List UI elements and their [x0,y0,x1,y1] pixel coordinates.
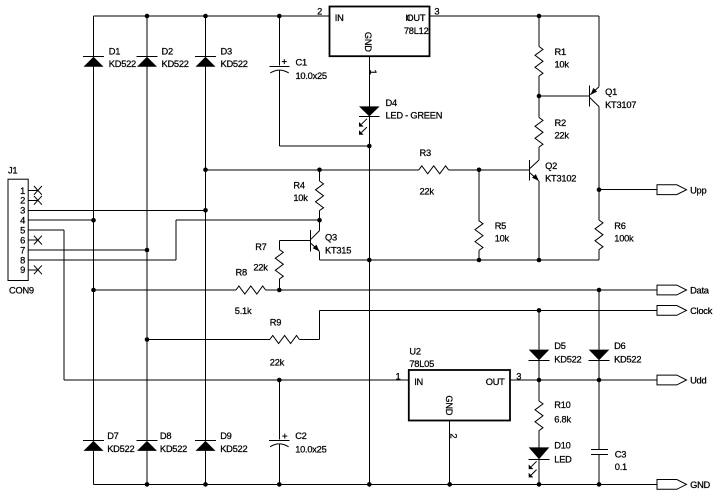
svg-text:1: 1 [395,371,400,381]
port GND [657,480,687,490]
wire C1 bottom lead [278,71,280,147]
capacitor C3 0.1 [591,380,608,484]
junction pin3/D3 rail [203,208,208,213]
wire D6 lower lead [598,360,600,380]
svg-text:C1: C1 [296,58,307,68]
svg-text:78L12: 78L12 [404,26,429,36]
junction D4 rail / emitter bus [367,258,372,263]
svg-text:KT3102: KT3102 [545,174,576,184]
junction Upp node [597,187,602,192]
wire top supply bus left [94,15,330,17]
wire Data line right [266,289,657,291]
svg-text:GND: GND [690,480,710,490]
svg-text:J1: J1 [8,166,17,176]
junction pin7/D2 rail [145,248,150,253]
svg-text:R9: R9 [270,318,281,328]
svg-text:C2: C2 [295,431,306,441]
diode D8 KD522 [137,441,158,451]
diode D5 KD522 [529,350,550,361]
svg-text:KD522: KD522 [107,444,134,454]
svg-text:GND: GND [363,32,373,52]
svg-text:Upp: Upp [690,185,706,195]
wire Data line left [94,289,237,291]
svg-text:LED - GREEN: LED - GREEN [386,110,443,120]
wire D2 rail upper [146,16,148,56]
wire D3 rail middle [205,67,207,441]
svg-text:22k: 22k [270,358,285,368]
junction D6/C3 on Udd [597,378,602,383]
J1 pin 9 no-connect X [34,265,42,274]
LED D10 [529,447,550,477]
svg-text:KD522: KD522 [554,355,581,365]
svg-text:LED: LED [554,454,572,464]
junction R5 top [477,168,482,173]
junction R4 top [317,168,322,173]
svg-text:2: 2 [20,196,25,206]
wire GND bus [94,483,658,485]
wire D1 rail middle [93,67,95,441]
svg-text:IN: IN [335,13,344,23]
svg-text:OUT: OUT [486,377,505,387]
svg-text:Udd: Udd [690,376,706,386]
regulator U1 78L12 body [330,7,430,57]
resistor R4 10k [316,170,324,220]
resistor R3 22k [419,166,449,174]
wire D2 rail middle [146,67,148,441]
junction D6 / Data line [597,288,602,293]
wire mid bus left [206,169,419,171]
junction D3 top bus [203,14,208,19]
resistor R6 100k [595,190,603,260]
junction D2 top bus [145,14,150,19]
diode D6 KD522 [589,350,610,361]
svg-text:D7: D7 [107,431,118,441]
svg-text:8: 8 [20,255,25,265]
junction R4 bottom / Q3 collector / pin8 wire [317,218,322,223]
svg-text:10.0x25: 10.0x25 [295,444,326,454]
junction C3 / GND bus [597,482,602,487]
svg-text:CON9: CON9 [9,286,34,296]
svg-text:Q2: Q2 [545,161,557,171]
svg-text:C3: C3 [615,450,626,460]
svg-text:R10: R10 [554,400,570,410]
svg-text:3: 3 [20,206,25,216]
port Clock [657,306,687,316]
svg-text:Clock: Clock [690,306,713,316]
svg-text:78L05: 78L05 [409,359,434,369]
svg-text:22k: 22k [555,131,570,141]
svg-text:10k: 10k [555,60,570,70]
J1 pin 6 stub [28,239,38,241]
svg-text:KT315: KT315 [325,245,351,255]
resistor R9 22k [270,336,300,344]
svg-text:Q1: Q1 [605,87,617,97]
svg-text:D6: D6 [614,341,625,351]
U1 OUT overprint artifact [407,15,409,22]
svg-text:10k: 10k [495,234,510,244]
svg-text:KD522: KD522 [614,355,641,365]
svg-text:1: 1 [368,70,378,75]
LED D4 GREEN [359,106,380,134]
wire D3 rail upper [205,16,207,56]
svg-text:IN: IN [414,377,423,387]
wire Clock riser [319,310,321,339]
diode D2 KD522 [137,57,158,67]
svg-text:10k: 10k [293,193,308,203]
svg-text:D8: D8 [160,431,171,441]
wire C2 lower lead [278,444,280,484]
junction D4 rail / GND bus [367,482,372,487]
wire D5 lower lead [538,360,540,380]
wire Q2 emitter rail [538,181,540,260]
svg-text:6: 6 [20,236,25,246]
diode D1 KD522 [83,57,104,67]
junction R1/R2/Q1 base [537,94,542,99]
wire D1 rail upper [93,16,95,56]
svg-text:D4: D4 [386,98,397,108]
wire J1 pin 4 to D1 rail [28,219,93,221]
junction R5 bottom / emitter bus [477,258,482,263]
wire Q3 base [279,240,310,242]
svg-text:R5: R5 [495,221,506,231]
wire D5 upper lead [538,310,540,349]
wire C1 bottom to D4 rail [279,145,369,147]
wire Udd row right [510,379,657,381]
transistor Q2 KT3102 [530,160,540,181]
junction R1 top [537,14,542,19]
connector J1 body [8,179,28,280]
J1 pin 2 no-connect X [34,196,42,205]
svg-text:D10: D10 [554,441,570,451]
resistor R5 10k [475,170,483,260]
junction C2 / GND bus [277,482,282,487]
transistor Q1 KT3107 [590,86,600,107]
junction Data line / D1 rail [91,288,96,293]
wire Q1 emitter drop [598,16,600,87]
svg-text:D1: D1 [109,47,120,57]
svg-text:0.1: 0.1 [615,462,627,472]
diode D9 KD522 [195,441,216,451]
wire Udd row left [64,379,409,381]
svg-text:D2: D2 [162,47,173,57]
transistor Q3 KT315 [311,220,320,260]
junction U2 GND / GND bus [447,482,452,487]
wire D6 upper lead [598,290,600,350]
wire U2 GND rail [449,421,451,485]
svg-text:R6: R6 [614,221,625,231]
wire mid bus right to Q2 base [449,169,530,171]
svg-text:GND: GND [444,395,454,415]
capacitor C1 10.0x25 [269,16,289,73]
svg-text:Q3: Q3 [325,232,337,242]
resistor R1 10k [535,16,543,96]
svg-text:KD522: KD522 [160,444,187,454]
diode D3 KD522 [195,57,216,67]
junction Q2 emitter / emitter bus [537,258,542,263]
wire J1 pin 8 horizontal [28,259,176,261]
svg-text:1: 1 [20,186,25,196]
junction D5 / Clock line [537,308,542,313]
wire R9 to Clock riser [299,339,319,341]
wire J1 pin 7 to D2 rail [28,249,147,251]
wire Q1 base [539,95,589,97]
svg-text:D9: D9 [220,431,231,441]
resistor R2 22k [535,96,543,160]
wire Clock line [320,309,658,311]
capacitor C2 10.0x25 [269,380,290,447]
svg-text:KD522: KD522 [162,59,189,69]
svg-text:22k: 22k [253,263,268,273]
svg-text:KD522: KD522 [109,59,136,69]
svg-text:9: 9 [20,265,25,275]
svg-text:R8: R8 [236,268,247,278]
resistor R7 22k [275,241,283,290]
svg-text:2: 2 [449,433,459,438]
wire D4 rail lower [368,117,370,485]
resistor R8 5.1k [236,286,266,294]
resistor R10 6.8k [535,380,543,447]
regulator U2 78L05 body [409,370,510,421]
wire U1 GND rail [368,56,370,106]
wire D7 lower lead [93,451,95,485]
svg-text:6.8k: 6.8k [554,415,571,425]
wire D10 lower lead [538,459,540,484]
junction mid bus / D3 rail [203,168,208,173]
wire emitter bus [320,259,600,261]
svg-text:7: 7 [20,245,25,255]
svg-text:KD522: KD522 [220,444,247,454]
svg-text:U2: U2 [409,347,420,357]
svg-text:R7: R7 [255,242,266,252]
junction D8 / GND bus [145,482,150,487]
junction C2 / Udd row [277,378,282,383]
wire top bus right of U1 [430,15,600,17]
svg-text:KD522: KD522 [221,59,248,69]
svg-text:R1: R1 [555,47,566,57]
wire Upp [599,189,657,191]
J1 pin 1 stub [28,189,38,191]
J1 pin 2 stub [28,199,38,201]
svg-text:KT3107: KT3107 [605,100,636,110]
svg-text:100k: 100k [614,234,634,244]
junction C1 top bus [277,14,282,19]
wire pin 8 to R4 bottom node [176,219,320,221]
svg-text:5.1k: 5.1k [235,306,252,316]
svg-text:R2: R2 [555,118,566,128]
port Upp [657,185,687,195]
wire pin 8 riser up [175,220,177,260]
wire R9 line from D2 rail [147,339,270,341]
wire pin 5 riser down [63,230,65,380]
junction R9 / D2 rail [145,337,150,342]
svg-text:4: 4 [20,216,25,226]
J1 pin 6 no-connect X [34,236,42,245]
diode D7 KD522 [83,441,104,451]
junction D5/R10 on Udd [537,378,542,383]
junction R7 / Data line [277,288,282,293]
svg-text:R4: R4 [293,181,304,191]
svg-text:D5: D5 [554,341,565,351]
svg-text:3: 3 [434,7,439,17]
J1 pin 9 stub [28,269,38,271]
J1 pin 1 no-connect X [34,186,42,195]
svg-text:22k: 22k [420,186,435,196]
port Udd [657,375,687,385]
wire J1 pin 5 horizontal [28,229,64,231]
junction C1/D4 rail [367,144,372,149]
wire J1 pin 3 to D3 rail [28,209,205,211]
wire D8 lower lead [146,451,148,485]
junction D10 / GND bus [537,482,542,487]
port Data [657,285,687,295]
wire Q1 collector rail [598,107,600,190]
junction D9 / GND bus [203,482,208,487]
wire D9 lower lead [205,451,207,485]
svg-text:2: 2 [317,7,322,17]
svg-text:10.0x25: 10.0x25 [296,71,327,81]
svg-text:D3: D3 [221,47,232,57]
svg-text:Data: Data [690,286,710,296]
svg-text:5: 5 [20,226,25,236]
svg-text:R3: R3 [420,148,431,158]
junction pin4/D1 rail [91,218,96,223]
